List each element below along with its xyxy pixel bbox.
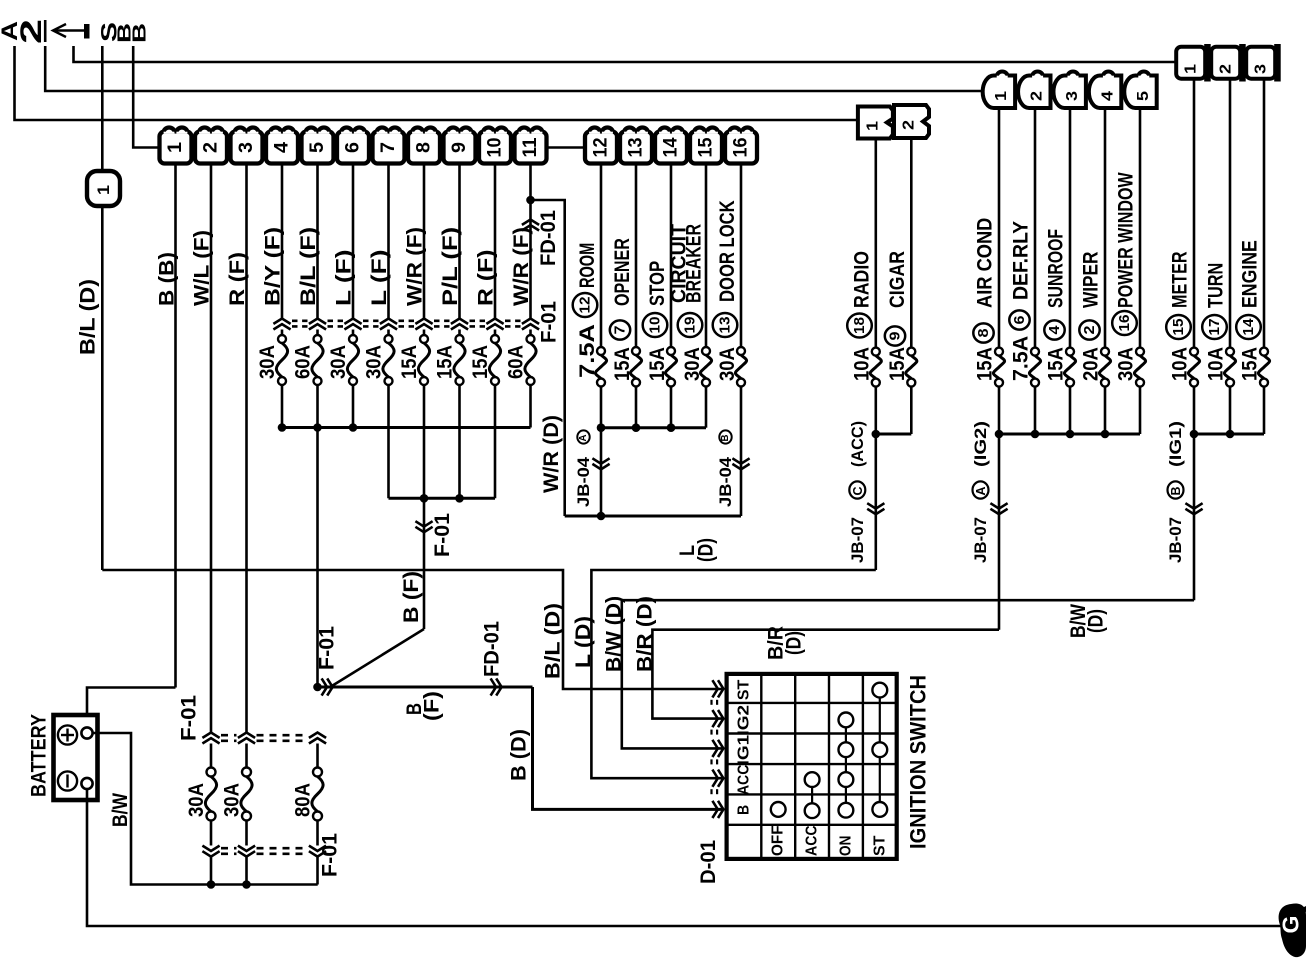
svg-text:30A: 30A (185, 783, 208, 817)
connector JB-07C chevron (867, 503, 884, 508)
svg-text:DEF.RLY: DEF.RLY (1010, 221, 1033, 300)
fuse 30A POWER WINDOW (1136, 348, 1144, 356)
wire B (F) from bus to junction B (423, 498, 426, 629)
fuse box connector 8 (408, 132, 440, 164)
wire from A to connector row (top) (15, 46, 858, 120)
fuse 15A STOP (667, 347, 675, 355)
wire below fuse DOOR LOCK (740, 386, 743, 516)
svg-text:15A: 15A (1239, 347, 1262, 381)
fuse 10A METER (1190, 348, 1198, 356)
connector F-01 chevron on wire 9 (451, 319, 468, 324)
wire below fuse 7 (387, 385, 390, 498)
fuse 60A on wire 11 (527, 335, 535, 343)
svg-text:2: 2 (1029, 91, 1046, 101)
wire below fuse STOP (670, 386, 673, 428)
wire below fuse 10 (494, 385, 497, 498)
fuse box connector 10 (479, 132, 511, 164)
connector F-01 chevron on wire B (D) (322, 678, 327, 695)
battery positive terminal (58, 725, 77, 744)
circled 10 (STOP) (643, 313, 668, 337)
svg-text:OFF: OFF (770, 825, 787, 856)
wire ENGINE (1263, 79, 1266, 348)
svg-text:4: 4 (1046, 325, 1063, 335)
svg-text:1: 1 (1183, 64, 1200, 74)
svg-text:1: 1 (865, 121, 882, 131)
svg-text:SUNROOF: SUNROOF (1045, 229, 1068, 308)
fusible link 80A (313, 768, 322, 777)
svg-text:6: 6 (1011, 316, 1028, 325)
svg-text:60A: 60A (504, 345, 527, 379)
svg-text:B (B): B (B) (156, 252, 179, 306)
svg-text:(ACC): (ACC) (848, 421, 867, 467)
wire AIR COND to IG2 bus (998, 387, 1001, 434)
wire below fuse ROOM (600, 386, 603, 428)
fuse box connector 3 (231, 132, 263, 164)
dashed connector face D-01 (710, 700, 712, 708)
wire ROOM from connector 12 (600, 164, 603, 348)
wire L (D) to ignition switch ACC (591, 570, 875, 778)
wire L (F) from connector 6 (352, 164, 355, 319)
svg-text:B/Y (F): B/Y (F) (262, 227, 285, 306)
svg-text:ST: ST (736, 679, 753, 700)
circled 14 (ENGINE) (1236, 315, 1261, 339)
bus JB-04A (601, 426, 706, 429)
svg-text:7.5A: 7.5A (1010, 336, 1033, 381)
svg-text:1: 1 (94, 185, 113, 195)
fuse 7.5A DEF.RLY (1031, 348, 1039, 356)
ignition switch contacts ST (879, 690, 881, 809)
svg-text:15A: 15A (886, 347, 909, 381)
svg-text:G: G (1278, 916, 1304, 934)
svg-text:ST: ST (871, 835, 888, 856)
wire OPENER from connector 13 (635, 164, 638, 348)
wire TURN (1229, 79, 1232, 348)
svg-text:A: A (973, 486, 988, 496)
fuse box connector 9 (444, 132, 476, 164)
svg-text:W/R (D): W/R (D) (540, 415, 563, 493)
svg-text:JB-07: JB-07 (848, 517, 867, 563)
svg-text:3: 3 (1064, 91, 1081, 101)
connector JB-04B chevron (732, 458, 749, 463)
fusible link 80A chevron top (309, 733, 326, 738)
svg-text:F-01: F-01 (431, 513, 454, 557)
svg-text:7.5A: 7.5A (576, 324, 599, 378)
svg-text:1: 1 (165, 142, 186, 153)
svg-text:(D): (D) (1085, 609, 1108, 633)
connector JB-07B chevron (1185, 503, 1202, 508)
svg-text:4: 4 (1099, 91, 1116, 101)
svg-text:2: 2 (1081, 326, 1098, 335)
svg-text:JB-07: JB-07 (971, 517, 990, 563)
dashed connector face F-01 (fuse row) (292, 319, 308, 322)
fusible link 30A chevron top (238, 733, 255, 738)
fuse box connector 13 (620, 132, 652, 164)
svg-text:15A: 15A (469, 345, 492, 379)
svg-text:8: 8 (975, 329, 992, 338)
fuse box connector 6 (337, 132, 369, 164)
svg-text:80A: 80A (291, 783, 314, 817)
junction on wire 11 (526, 196, 535, 205)
svg-text:9: 9 (887, 332, 904, 341)
circled 7 (OPENER) (610, 320, 630, 339)
svg-text:AIR COND: AIR COND (974, 218, 997, 308)
connector 3 (IG1 group) (1246, 47, 1275, 79)
circled 12 (ROOM) (573, 293, 598, 317)
svg-text:7: 7 (612, 326, 629, 335)
wire B/R (D) to ignition switch IG2 (652, 630, 999, 719)
wire B/L (F) from connector 5 (316, 164, 319, 319)
svg-text:10A: 10A (851, 347, 874, 381)
svg-text:2: 2 (201, 142, 222, 153)
svg-text:F-01: F-01 (316, 626, 339, 670)
wire from 1 to connector row (middle) (45, 46, 983, 91)
svg-text:20A: 20A (1080, 347, 1103, 381)
wire AIR COND (998, 108, 1001, 348)
svg-text:30A: 30A (327, 345, 350, 379)
svg-text:JB-07: JB-07 (1166, 517, 1185, 563)
wire B/R (D) from IG2 bus (998, 434, 1001, 630)
fuse 30A on wire 4 (278, 335, 286, 343)
JB-04 bottom bus (565, 515, 741, 518)
svg-text:ON: ON (837, 836, 854, 856)
svg-text:(IG1): (IG1) (1166, 421, 1185, 467)
wire B/W (D) to ignition switch IG1 (622, 600, 1194, 748)
fusible link 80A chevron bottom (309, 846, 326, 851)
svg-text:IG2: IG2 (736, 705, 753, 736)
fuse box connector 16 (725, 132, 757, 164)
svg-text:3: 3 (1253, 64, 1270, 74)
battery positive post (81, 727, 92, 738)
fusible link 30A (242, 768, 251, 777)
wire L (D) from ACC bus (874, 434, 877, 570)
wire B/W (D) from IG1 bus (1193, 434, 1196, 600)
svg-text:12: 12 (577, 297, 594, 314)
connector F-01 chevron on wire 7 (380, 319, 397, 324)
svg-text:OPENER: OPENER (611, 238, 634, 306)
svg-text:IGNITION SWITCH: IGNITION SWITCH (906, 675, 931, 849)
fusible link 30A chevron top (202, 733, 219, 738)
fusible link 30A chevron bottom (238, 846, 255, 851)
svg-text:(D): (D) (783, 631, 806, 655)
svg-text:L (D): L (D) (572, 616, 595, 668)
svg-text:DOOR LOCK: DOOR LOCK (716, 200, 739, 302)
wire L (F) from connector 7 (387, 164, 390, 319)
circled 2 (WIPER) (1079, 320, 1099, 339)
svg-text:B (D): B (D) (508, 729, 531, 781)
wire below fuse 8 (423, 385, 426, 498)
circled 13 (DOOR LOCK) (713, 313, 738, 337)
svg-text:METER: METER (1169, 252, 1192, 309)
svg-text:B (F): B (F) (400, 571, 423, 623)
connector 4 (IG2 group) (1089, 76, 1121, 109)
svg-text:30A: 30A (220, 783, 243, 817)
svg-text:10: 10 (647, 317, 664, 334)
svg-text:(D): (D) (695, 538, 718, 562)
svg-text:10: 10 (485, 138, 506, 158)
svg-text:19: 19 (682, 317, 699, 334)
svg-text:B: B (736, 805, 753, 815)
svg-text:F-01: F-01 (538, 301, 561, 343)
wire W/L (F) from connector 2 (210, 164, 213, 733)
svg-text:R (F): R (F) (226, 252, 249, 306)
circled 6 (DEF.RLY) (1009, 310, 1029, 329)
connector F-01 chevron on wire B (F) (415, 521, 432, 526)
svg-text:B/L (D): B/L (D) (77, 279, 100, 355)
wire R (F) from connector 3 (245, 164, 248, 733)
svg-text:13: 13 (626, 138, 647, 158)
bus of fuses 7-10 (389, 497, 496, 500)
wire DOOR LOCK from connector 16 (740, 164, 743, 348)
svg-text:14: 14 (661, 137, 682, 157)
wire TURN to IG1 bus (1229, 387, 1232, 434)
fuse 10A RADIO (872, 348, 880, 356)
svg-text:W/L (F): W/L (F) (191, 230, 214, 306)
ignition switch table frame (727, 674, 897, 859)
fuse 15A OPENER (632, 347, 640, 355)
svg-text:ACC: ACC (804, 825, 821, 856)
svg-text:12: 12 (591, 138, 612, 158)
wire POWER WINDOW (1139, 108, 1142, 348)
svg-text:RADIO: RADIO (851, 251, 874, 308)
wire STOP from connector 14 (670, 164, 673, 348)
svg-text:3: 3 (236, 142, 257, 153)
wire DEF.RLY to IG2 bus (1034, 387, 1037, 434)
svg-text:C: C (850, 486, 865, 496)
connector F-01 chevron on wire 11 (522, 319, 539, 324)
battery negative post (81, 778, 92, 789)
svg-text:15: 15 (1170, 319, 1187, 336)
fuse box connector 11 (515, 132, 547, 164)
wire ENGINE to IG1 bus (1263, 387, 1266, 434)
svg-text:A: A (578, 435, 589, 442)
battery negative terminal (58, 771, 77, 790)
svg-text:ROOM: ROOM (576, 243, 599, 288)
wire B/L (D) to ignition switch ST (101, 206, 104, 570)
svg-text:14: 14 (1240, 318, 1257, 336)
svg-text:13: 13 (717, 317, 734, 334)
junction B (313, 683, 322, 692)
fuse box connector 2 (195, 132, 227, 164)
fuse 15A on wire 9 (456, 335, 464, 343)
fuse box connector 14 (655, 132, 687, 164)
wire below fuse 11 (529, 385, 532, 428)
svg-text:1: 1 (993, 91, 1010, 101)
ignition switch contacts ACC (811, 780, 813, 811)
svg-text:BREAKER: BREAKER (683, 224, 706, 303)
wire METER (1193, 79, 1196, 348)
fuse box connector 4 (266, 132, 298, 164)
svg-text:17: 17 (1206, 319, 1223, 336)
wire below fuse OPENER (635, 386, 638, 428)
svg-text:(F): (F) (421, 691, 444, 721)
svg-text:15A: 15A (611, 347, 634, 381)
fuse 7.5A ROOM (597, 347, 605, 355)
svg-text:30A: 30A (362, 345, 385, 379)
svg-text:B/L (F): B/L (F) (297, 227, 320, 306)
bus IG1 (1194, 433, 1264, 436)
wire below fuse 6 (352, 385, 355, 428)
svg-text:CIGAR: CIGAR (886, 251, 909, 308)
wire ground from battery (87, 789, 1283, 926)
svg-text:B/L (D): B/L (D) (542, 603, 565, 679)
svg-text:18: 18 (851, 317, 868, 334)
svg-text:JB-04: JB-04 (574, 456, 593, 507)
svg-text:FD-01: FD-01 (537, 210, 560, 266)
svg-text:15A: 15A (433, 345, 456, 379)
svg-text:16: 16 (1116, 315, 1133, 332)
circled 17 (TURN) (1202, 315, 1227, 339)
wire ROOM to JB-04 bottom bus (600, 428, 603, 516)
ground G (1279, 904, 1306, 958)
connector F-01 chevron on wire 6 (344, 319, 361, 324)
wire DEF.RLY (1034, 108, 1037, 348)
wire from B to fuse box connector 1 (133, 46, 159, 148)
svg-text:W/R (F): W/R (F) (404, 227, 427, 306)
wire below fuse 5 (316, 385, 319, 428)
fuse 15A ENGINE (1260, 348, 1268, 356)
svg-text:10A: 10A (1205, 347, 1228, 381)
svg-text:B/R (D): B/R (D) (634, 596, 657, 672)
connector F-01 chevron on wire 8 (415, 319, 432, 324)
wire from S to connector row (upper) (74, 46, 1177, 62)
connector 2 (IG1 group) (1211, 47, 1240, 79)
svg-text:7: 7 (378, 142, 399, 153)
wire B (D) horizontal (318, 686, 533, 689)
svg-text:2: 2 (901, 120, 918, 130)
connector D-01 chevrons (712, 680, 717, 697)
fuse 60A on wire 5 (314, 335, 322, 343)
fuse 10A TURN (1226, 348, 1234, 356)
svg-text:30A: 30A (1115, 347, 1138, 381)
wire below fuse 9 (458, 385, 461, 498)
fuse box connector 15 (690, 132, 722, 164)
circled 15 (METER) (1166, 315, 1191, 339)
wire WIPER (1104, 108, 1107, 348)
svg-text:POWER WINDOW: POWER WINDOW (1115, 172, 1138, 308)
fuse 30A on wire 7 (385, 335, 393, 343)
svg-text:B: B (720, 435, 731, 442)
svg-text:5: 5 (307, 142, 328, 153)
fuse 15A on wire 10 (491, 335, 499, 343)
svg-text:L (F): L (F) (333, 250, 356, 307)
fuse box connector 1 (160, 132, 192, 164)
dashed connector face F-01 (links top) (221, 734, 237, 737)
svg-text:W/R (F): W/R (F) (510, 227, 533, 306)
svg-text:10A: 10A (1169, 347, 1192, 381)
connector 3 (IG2 group) (1053, 76, 1085, 109)
wire WIPER to IG2 bus (1104, 387, 1107, 434)
fuse 30A CIRCUIT BREAKER (702, 347, 710, 355)
circled 18 (RADIO) (847, 314, 872, 338)
connector 1 (IG1 group) (1176, 47, 1205, 79)
wire METER to IG1 bus (1193, 387, 1196, 434)
wire branch FD-01 to JB-04 bus (531, 200, 565, 516)
wire SUNROOF (1069, 108, 1072, 348)
wire B (D) to ignition switch B (533, 687, 725, 809)
wire CIGAR (910, 137, 913, 348)
svg-text:9: 9 (449, 142, 470, 153)
bus ACC (876, 433, 912, 436)
svg-text:B: B (130, 23, 150, 43)
svg-text:B/W (D): B/W (D) (603, 596, 626, 672)
svg-text:15A: 15A (398, 345, 421, 379)
svg-text:15A: 15A (974, 347, 997, 381)
svg-text:30A: 30A (716, 347, 739, 381)
svg-text:TURN: TURN (1205, 263, 1228, 308)
circled 16 (POWER WINDOW) (1112, 311, 1137, 335)
ignition switch contacts ON (845, 720, 847, 810)
connector 2 (accessory pair) (894, 105, 929, 138)
svg-text:ACC: ACC (736, 764, 753, 795)
connector (1) on wire B/L (D) (87, 171, 120, 206)
svg-text:15: 15 (696, 137, 717, 157)
svg-text:L (F): L (F) (368, 250, 391, 307)
connector JB-07A chevron (990, 503, 1007, 508)
wire B/L (F) extension to fusible link 80A (316, 428, 319, 688)
svg-text:R (F): R (F) (475, 250, 498, 307)
link between connector 11 and 12 (547, 146, 586, 149)
svg-text:B/W: B/W (109, 793, 132, 827)
fuse box connector 12 (585, 132, 617, 164)
svg-text:F-01: F-01 (178, 695, 201, 741)
ignition switch contacts OFF (771, 802, 786, 817)
fuse 30A DOOR LOCK (737, 347, 745, 355)
fusible link 30A chevron bottom (202, 846, 219, 851)
circled 19 (CIRCUIT BREAKER) (678, 313, 703, 337)
svg-text:P/L (F): P/L (F) (439, 227, 462, 306)
svg-text:F-01: F-01 (319, 833, 342, 877)
svg-text:8: 8 (414, 142, 435, 153)
connector JB-04A chevron (592, 458, 609, 463)
off-page label 1 (44, 20, 47, 42)
connector F-01 chevron on wire 5 (309, 319, 326, 324)
svg-text:30A: 30A (256, 345, 279, 379)
wire below fuse 4 (281, 385, 284, 428)
svg-text:16: 16 (731, 138, 752, 158)
svg-text:2: 2 (15, 19, 48, 44)
fuse 15A CIGAR (907, 348, 915, 356)
fuse 15A AIR COND (995, 348, 1003, 356)
circled 9 (CIGAR) (885, 326, 905, 345)
wire P/L (F) from connector 9 (458, 164, 461, 319)
off-page arrow (54, 29, 84, 32)
circled 4 (SUNROOF) (1044, 320, 1064, 339)
wire W/R (F) from connector 11 (529, 164, 532, 319)
svg-text:D-01: D-01 (697, 840, 720, 884)
svg-text:11: 11 (520, 137, 541, 157)
svg-text:B: B (1168, 487, 1183, 496)
wire R (F) from connector 10 (494, 164, 497, 319)
circled 8 (AIR COND) (973, 323, 993, 342)
fuse 15A SUNROOF (1066, 348, 1074, 356)
connector 1 (IG2 group) (983, 76, 1015, 109)
svg-text:BATTERY: BATTERY (28, 714, 51, 797)
connector 1 (accessory pair) (858, 107, 893, 139)
wire SUNROOF to IG2 bus (1069, 387, 1072, 434)
svg-text:WIPER: WIPER (1080, 252, 1103, 309)
svg-text:ENGINE: ENGINE (1239, 240, 1262, 308)
svg-text:4: 4 (272, 142, 293, 153)
wire B (B) from connector 1 to battery (174, 164, 177, 688)
fuse box connector 5 (302, 132, 334, 164)
wire POWER WINDOW to IG2 bus (1139, 387, 1142, 434)
svg-text:(IG2): (IG2) (971, 421, 990, 467)
connector F-01 chevron on wire 10 (486, 319, 503, 324)
connector 2 (IG2 group) (1018, 76, 1050, 109)
svg-text:15A: 15A (646, 347, 669, 381)
svg-text:2: 2 (1218, 64, 1235, 74)
svg-text:5: 5 (1135, 91, 1152, 101)
